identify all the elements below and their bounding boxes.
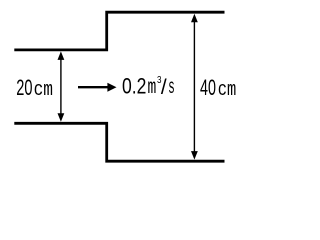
svg-text:cm: cm (218, 79, 237, 102)
svg-text:cm: cm (34, 79, 53, 102)
svg-text:/: / (161, 76, 167, 99)
svg-text:m: m (148, 77, 157, 100)
svg-text:s: s (168, 77, 175, 100)
svg-text:0.2: 0.2 (122, 73, 146, 98)
svg-text:20: 20 (16, 75, 32, 100)
svg-text:40: 40 (200, 75, 216, 100)
